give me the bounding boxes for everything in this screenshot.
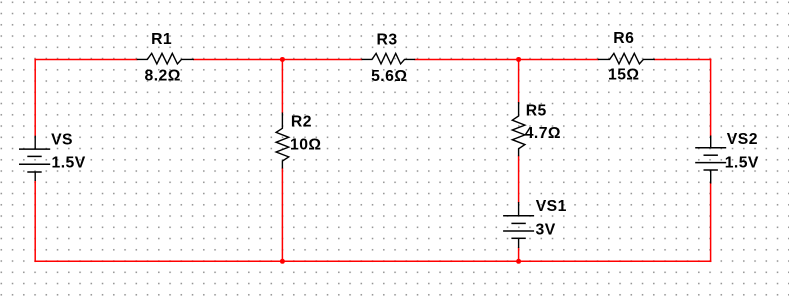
svg-text:5.6Ω: 5.6Ω (371, 68, 407, 85)
svg-text:8.2Ω: 8.2Ω (145, 67, 181, 84)
svg-text:VS2: VS2 (727, 131, 758, 148)
svg-text:1.5V: 1.5V (52, 155, 86, 172)
svg-text:15Ω: 15Ω (608, 67, 640, 84)
svg-text:R3: R3 (377, 32, 398, 49)
svg-text:1.5V: 1.5V (725, 155, 759, 172)
svg-text:R1: R1 (151, 31, 172, 48)
svg-text:R2: R2 (291, 113, 312, 130)
svg-text:3V: 3V (536, 222, 556, 239)
svg-text:VS1: VS1 (536, 198, 567, 215)
svg-text:R6: R6 (613, 30, 634, 47)
svg-text:VS: VS (51, 132, 73, 149)
svg-text:R5: R5 (526, 103, 547, 120)
svg-text:4.7Ω: 4.7Ω (525, 125, 561, 142)
svg-text:10Ω: 10Ω (290, 136, 322, 153)
